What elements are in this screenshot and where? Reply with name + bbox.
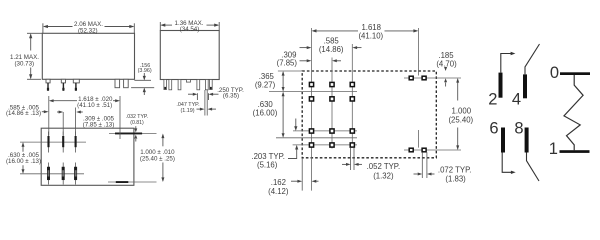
dimension .250 TYP. (6.35) bbox=[188, 87, 244, 100]
svg-text:(25.40 ± .25): (25.40 ± .25) bbox=[140, 156, 175, 163]
svg-text:(1.83): (1.83) bbox=[445, 174, 466, 183]
dimension 1.000 (25.40) pc board bbox=[448, 78, 473, 150]
schematic coil terminal 1 bbox=[560, 150, 590, 153]
schematic contact pin 2 bbox=[499, 52, 516, 98]
PC board pattern dashed outline bbox=[302, 71, 436, 158]
svg-text:.162: .162 bbox=[271, 178, 286, 187]
svg-text:1: 1 bbox=[549, 140, 558, 158]
side view coil pins bbox=[115, 79, 128, 87]
schematic contact pin 6 bbox=[501, 128, 516, 175]
end view pins bbox=[164, 80, 212, 90]
side view contact pins bbox=[46, 79, 79, 91]
svg-text:.052 TYP.: .052 TYP. bbox=[367, 162, 401, 171]
svg-text:(4.12): (4.12) bbox=[268, 187, 289, 196]
dimension .585 (14.86) pc board bbox=[300, 36, 362, 53]
dimension .156 (3.96) pin standoff bbox=[131, 63, 154, 95]
dimension .032 TYP. (0.81) terminal thickness bbox=[126, 114, 148, 142]
svg-text:(1.32): (1.32) bbox=[373, 171, 394, 180]
dimension .365 (9.27) pc board bbox=[255, 71, 285, 92]
schematic coil terminal 0 bbox=[560, 72, 590, 75]
PC board coil pad row lines bbox=[404, 28, 461, 150]
svg-text:2: 2 bbox=[488, 91, 497, 109]
dimension 1.000 ± .010 (25.40 ± .25) bottom view bbox=[140, 134, 175, 183]
dimension .072 TYP. (1.83) pc board bbox=[414, 152, 472, 183]
svg-text:1.000: 1.000 bbox=[452, 107, 472, 116]
schematic coil winding bbox=[564, 75, 583, 150]
dimension 1.21 MAX. (30.73) bbox=[10, 33, 42, 79]
svg-text:(30.73): (30.73) bbox=[14, 60, 34, 67]
relay body outline, side view bbox=[42, 33, 134, 79]
svg-text:(9.27): (9.27) bbox=[255, 80, 276, 89]
dimension .630 (16.00) pc board bbox=[253, 92, 285, 138]
schematic contact pin 4 (movable) bbox=[523, 44, 540, 98]
svg-text:(16.00 ± .13): (16.00 ± .13) bbox=[6, 158, 41, 165]
svg-text:.072 TYP.: .072 TYP. bbox=[438, 165, 472, 174]
dimension .203 TYP. (5.16) pc board bbox=[251, 119, 298, 170]
PC board coil hole pads bbox=[409, 76, 426, 152]
bottom view coil terminal bottom bar bbox=[108, 181, 157, 183]
bottom view pin row lines bbox=[20, 142, 86, 174]
dimension 1.36 MAX. (34.54) bbox=[160, 20, 219, 33]
svg-text:(14.86): (14.86) bbox=[319, 45, 344, 54]
dimension .309 ± .005 (7.85 ± .13) bottom view bbox=[57, 108, 115, 136]
svg-text:.203 TYP.: .203 TYP. bbox=[251, 152, 285, 161]
PC board pad column lines bbox=[312, 28, 353, 191]
svg-text:(16.00): (16.00) bbox=[253, 109, 278, 118]
dimension .585 ± .005 (14.86 ± .13) bottom view bbox=[6, 104, 49, 117]
svg-text:(52.32): (52.32) bbox=[78, 28, 98, 35]
svg-text:(34.54): (34.54) bbox=[180, 26, 200, 33]
dimension .309 (7.85) pc board bbox=[277, 51, 341, 68]
bottom view contact pin slots row 1 bbox=[47, 132, 76, 153]
dimension 2.06 MAX. (52.32) bbox=[43, 21, 134, 35]
schematic contact pin 8 (movable) bbox=[525, 128, 539, 182]
bottom view outline bbox=[41, 128, 134, 185]
relay body outline, end view bbox=[160, 31, 219, 80]
dimension 1.618 (41.10) pc board bbox=[312, 23, 419, 41]
dimension .630 ± .005 (16.00 ± .13) bottom view bbox=[6, 142, 41, 174]
svg-text:4: 4 bbox=[512, 91, 521, 109]
svg-text:(7.85): (7.85) bbox=[277, 59, 298, 68]
dimension .047 TYP. (1.19) bbox=[176, 102, 216, 114]
svg-text:(6.35): (6.35) bbox=[223, 93, 239, 100]
svg-text:0: 0 bbox=[550, 64, 559, 82]
svg-text:8: 8 bbox=[514, 120, 523, 138]
svg-text:(5.16): (5.16) bbox=[257, 161, 278, 170]
dimension .052 TYP. (1.32) pc board bbox=[342, 148, 400, 181]
svg-text:(41.10 ± .51): (41.10 ± .51) bbox=[77, 102, 112, 109]
svg-text:(14.86 ± .13): (14.86 ± .13) bbox=[6, 110, 41, 117]
svg-text:(7.85 ± .13): (7.85 ± .13) bbox=[83, 121, 115, 128]
bottom view contact pin slots row 2 bbox=[47, 163, 77, 185]
terminal edge lines under end view bbox=[205, 90, 207, 116]
svg-text:6: 6 bbox=[489, 120, 498, 138]
dimension .162 (4.12) pc board bbox=[268, 158, 318, 196]
svg-text:(25.40): (25.40) bbox=[448, 116, 473, 125]
bottom view coil terminal top bar bbox=[109, 133, 157, 135]
dimension 1.618 ± .020 (41.10 ± .51) bottom view bbox=[49, 96, 120, 139]
svg-text:(1.19): (1.19) bbox=[180, 108, 194, 114]
svg-text:(3.96): (3.96) bbox=[138, 68, 152, 74]
PC board hole pads left group bbox=[309, 82, 354, 147]
svg-text:(41.10): (41.10) bbox=[358, 32, 383, 41]
dimension .185 (4.70) pc board bbox=[436, 51, 457, 86]
PC board pad row lines bbox=[269, 71, 357, 145]
svg-text:(0.81): (0.81) bbox=[130, 120, 144, 126]
